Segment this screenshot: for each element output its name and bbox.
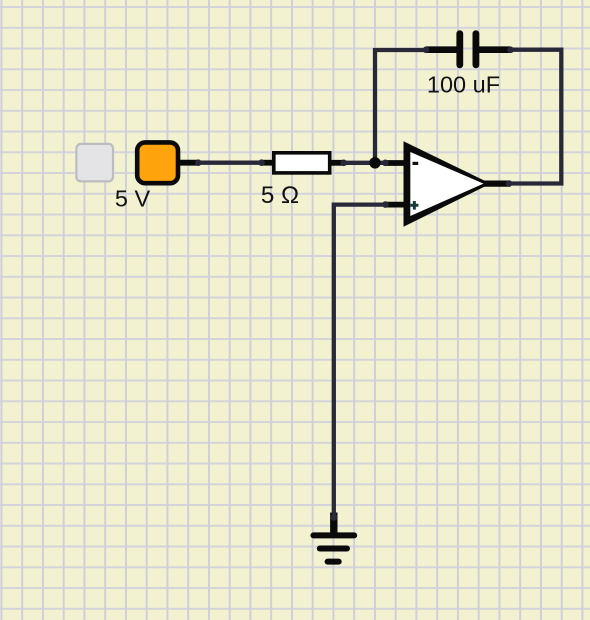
svg-text:5 V: 5 V	[115, 186, 151, 212]
svg-text:5 Ω: 5 Ω	[261, 182, 299, 209]
svg-text:100 uF: 100 uF	[427, 72, 500, 98]
